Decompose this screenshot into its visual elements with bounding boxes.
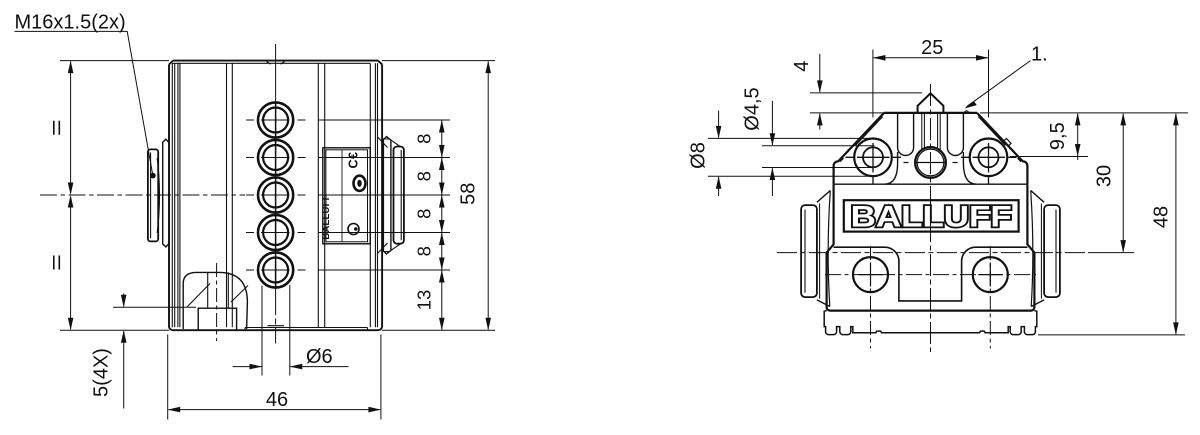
- chain arrow 3 up: [439, 195, 445, 208]
- dim d4.5 line lower: [771, 168, 773, 196]
- top slot groove marks: [267, 62, 285, 65]
- head right slant outer: [977, 113, 1027, 184]
- dim 4 line upper: [819, 54, 821, 92]
- hole circle 1: [258, 102, 293, 137]
- head center corner right: [963, 152, 976, 184]
- chain arrow 2 up: [439, 158, 445, 171]
- hole 1 centerline: [246, 119, 306, 121]
- dome bottom block: [198, 308, 236, 330]
- body bottom edge: [830, 310, 1031, 312]
- dim d8 line upper: [718, 111, 720, 138]
- inner vertical lines right: [370, 63, 377, 327]
- plunger dome outline: [183, 272, 247, 329]
- left gland body curve: [828, 191, 830, 307]
- body top corner chamfer left: [169, 61, 173, 65]
- equal dim line upper: [70, 62, 72, 194]
- svg-text:1.: 1.: [1031, 43, 1048, 65]
- inner top edge line: [172, 62, 370, 64]
- equal dim arrow top: [68, 61, 74, 74]
- head left slant inner: [840, 117, 883, 162]
- dim 4 arrow lower: [817, 113, 823, 126]
- dim 30 arrow top: [1120, 113, 1126, 126]
- right gland body curve: [1031, 191, 1033, 307]
- bottom hole right cross: [978, 263, 1003, 287]
- chain arrow 4 down: [439, 220, 445, 233]
- chain arrow 5 down: [439, 258, 445, 271]
- dim 5(4X) line lower: [123, 331, 125, 409]
- dim d4.5 arrow upper: [770, 133, 776, 146]
- M16 leader dot: [150, 173, 156, 179]
- dim 48 extension line: [1038, 334, 1185, 336]
- dim 4 top edge extension left: [810, 112, 884, 114]
- dim d4.5 arrow lower: [770, 168, 776, 181]
- dim 5(4X) arrow lower: [121, 330, 127, 343]
- hole circle 5: [258, 252, 293, 287]
- bottom edge extension line left: [60, 329, 169, 331]
- dim 25 extension lines: [873, 50, 989, 118]
- left gland bulge: [157, 158, 159, 233]
- top hole boss left: [854, 139, 892, 177]
- equal symbol lower: [54, 256, 60, 270]
- right gland body bottom: [1031, 300, 1044, 307]
- svg-text:8: 8: [414, 171, 435, 181]
- top hole left cross: [846, 143, 902, 184]
- svg-text:8: 8: [414, 209, 435, 219]
- head parting line: [834, 183, 1028, 185]
- head top right notch: [963, 111, 970, 113]
- dim 30 extension line: [1088, 252, 1134, 254]
- gland centerline left view: [40, 194, 245, 196]
- base feet profile: [824, 311, 1037, 335]
- svg-text:C€: C€: [347, 152, 361, 169]
- chain arrow 1 up: [439, 120, 445, 133]
- dim d6 arrow right: [290, 364, 303, 370]
- dim 9.5 line: [1077, 114, 1079, 160]
- inner vertical lines left: [172, 63, 180, 327]
- dim 9.5 extension line: [1010, 156, 1088, 158]
- cover plate inner: [326, 150, 368, 242]
- body top corner chamfer right: [378, 61, 382, 65]
- dome centerline: [216, 263, 218, 341]
- plunger circle: [915, 147, 946, 178]
- top hole left: [863, 147, 883, 167]
- bottom edge extension line right: [382, 329, 495, 331]
- top hole right cross: [961, 143, 1017, 184]
- svg-text:Ø6: Ø6: [306, 346, 333, 368]
- dim 4 arrow upper: [817, 80, 823, 93]
- hole 4 centerline: [246, 232, 306, 234]
- head left slant outer: [834, 113, 884, 184]
- chain arrow 3 down: [439, 183, 445, 196]
- dome diagonal left: [187, 284, 210, 308]
- right gland cap face line: [400, 150, 402, 240]
- right gland cap face line: [1055, 210, 1057, 293]
- hole circle 4: [258, 215, 293, 250]
- head right slant inner: [978, 117, 1021, 162]
- dim 5(4X) arrow upper: [121, 295, 127, 308]
- bottom hole left: [853, 257, 888, 292]
- top edge extension line left: [60, 60, 169, 62]
- dim d8 line lower: [718, 177, 720, 196]
- dim 58 arrow top: [485, 61, 491, 74]
- head slot left: [898, 113, 914, 156]
- right gland chamfer to cap: [391, 140, 400, 250]
- M16 leader line: [127, 31, 153, 174]
- holes vertical centerline: [275, 44, 277, 344]
- cover plate fold line: [341, 150, 343, 242]
- left gland body top: [817, 191, 830, 203]
- chain arrow 4 up: [439, 233, 445, 246]
- left gland body bottom: [817, 300, 830, 307]
- dim 48 arrow top: [1173, 113, 1179, 126]
- dim d6 line right: [290, 366, 348, 368]
- dim 48 arrow bottom: [1173, 322, 1179, 335]
- bottom boss outline: [834, 247, 1028, 301]
- balluff label box: [844, 200, 1019, 231]
- top hole right: [979, 147, 999, 167]
- dim d4.5 line upper: [771, 101, 773, 145]
- dim 25 line: [874, 57, 988, 59]
- right gland body top: [1031, 191, 1044, 203]
- chain arrow 2 down: [439, 145, 445, 158]
- hole circle 2: [258, 140, 293, 175]
- svg-text:8: 8: [414, 246, 435, 256]
- left gland cap face line: [150, 153, 152, 239]
- bottom holes horizontal centerline: [825, 274, 1036, 276]
- equal dim arrow bottom: [68, 318, 74, 331]
- svg-text:13: 13: [414, 290, 435, 311]
- equal dim line lower: [70, 197, 72, 330]
- right gland flange: [383, 137, 391, 254]
- cover screw: [348, 224, 359, 235]
- head right slant tab: [1004, 139, 1011, 147]
- bottom hole left cross: [859, 263, 884, 287]
- dim 4 line lower: [819, 114, 821, 130]
- dome inner verticals: [208, 272, 229, 308]
- left gland cap face line: [804, 210, 806, 293]
- body left edge: [827, 184, 834, 310]
- dim d6 arrow left: [250, 364, 263, 370]
- note 1 arrow: [964, 101, 977, 108]
- svg-text:48: 48: [1151, 206, 1173, 228]
- svg-text:Ø4,5: Ø4,5: [742, 87, 764, 130]
- right gland flange rear edge: [1040, 204, 1042, 299]
- hole 5 centerline: [246, 269, 306, 271]
- svg-text:4: 4: [791, 61, 813, 72]
- plunger circle centerline: [904, 162, 958, 164]
- right gland cap front: [1044, 205, 1060, 297]
- dim d6 extension lines: [262, 285, 290, 376]
- left gland cap: [148, 149, 158, 241]
- dim 58 arrow bottom: [485, 318, 491, 331]
- left gland cap front: [801, 205, 817, 297]
- dim 58 line: [487, 62, 489, 330]
- dim 46 line: [169, 409, 381, 411]
- head top extension line right: [980, 112, 1188, 114]
- head center corner left: [885, 152, 898, 184]
- chain arrow 5 up: [439, 270, 445, 283]
- dim 30 arrow bottom: [1120, 240, 1126, 253]
- inner vertical line pair cover edge: [318, 63, 324, 327]
- dim 9.5 arrow bottom: [1075, 144, 1081, 157]
- body right edge: [1027, 184, 1034, 310]
- right gland root chamfers: [378, 137, 390, 254]
- dim d8 arrow upper: [716, 126, 722, 139]
- bottom inner edge line: [245, 326, 368, 330]
- main vertical centerline: [930, 84, 932, 352]
- bottom hole right: [973, 257, 1008, 292]
- bottom hole right vertical centerline: [989, 246, 991, 349]
- equal symbol upper: [54, 121, 60, 135]
- gland horizontal centerline: [777, 252, 1088, 254]
- svg-text:30: 30: [1094, 165, 1116, 187]
- dome diagonal right: [231, 286, 248, 303]
- svg-text:BALLUFF: BALLUFF: [851, 201, 1012, 234]
- dim d4.5 extension lines: [762, 146, 875, 168]
- dim 30 line: [1122, 114, 1124, 252]
- dim 46 arrow left: [168, 407, 181, 413]
- bottom hole left vertical centerline: [870, 246, 872, 349]
- top edge extension line right: [382, 60, 495, 62]
- dim d8 arrow lower: [716, 176, 722, 189]
- svg-text:M16x1.5(2x): M16x1.5(2x): [15, 12, 126, 34]
- hole 3 centerline: [246, 194, 306, 196]
- svg-text:9,5: 9,5: [1047, 122, 1069, 150]
- dim d8 extension lines: [708, 138, 875, 176]
- cover approval oval: [354, 176, 366, 191]
- svg-text:46: 46: [266, 389, 288, 411]
- dim 46 extension lines: [168, 335, 381, 420]
- dim 4 extension line upper: [810, 92, 922, 94]
- chain arrow 6 down: [439, 318, 445, 331]
- right gland cap: [394, 147, 404, 244]
- equal dim arrow mid down: [68, 183, 74, 196]
- svg-text:58: 58: [458, 183, 480, 205]
- cover plate outer: [323, 148, 370, 244]
- top hole boss right: [970, 139, 1008, 177]
- M16 label underline: [15, 30, 128, 32]
- hole 2 centerline: [246, 157, 306, 159]
- dim 5(4X) extension line: [113, 306, 196, 308]
- dim 25 arrow left: [873, 55, 886, 61]
- head slot right: [947, 113, 963, 156]
- dim 25 arrow right: [976, 55, 989, 61]
- dim 48 line: [1175, 114, 1177, 334]
- plunger tip pentagon: [918, 93, 944, 113]
- note 1 leader: [967, 61, 1031, 107]
- dim 8 chain line: [441, 120, 443, 330]
- dim 46 arrow right: [368, 407, 381, 413]
- dim 5(4X) line upper: [123, 294, 125, 307]
- dim 9.5 arrow top: [1075, 113, 1081, 126]
- svg-text:Ø8: Ø8: [688, 142, 710, 169]
- dim d6 line left: [233, 366, 262, 368]
- hole circle 3: [258, 177, 293, 212]
- body outer contour: [169, 61, 382, 331]
- svg-text:5(4X): 5(4X): [91, 348, 113, 397]
- left gland flange: [163, 139, 170, 247]
- inner vertical line pair head edge: [227, 63, 233, 327]
- hole pitch extension lines: [318, 120, 450, 270]
- equal dim arrow mid up: [68, 195, 74, 208]
- plunger shaft: [922, 113, 940, 150]
- left gland flange rear edge: [819, 204, 821, 299]
- svg-text:8: 8: [414, 134, 435, 144]
- head top edge: [884, 112, 977, 114]
- svg-text:25: 25: [921, 37, 943, 59]
